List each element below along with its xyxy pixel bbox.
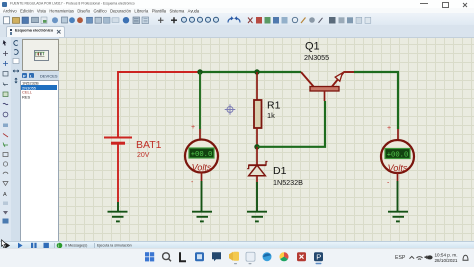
P L DEVICES header [22,73,27,78]
voltmeter VM1 [185,124,218,186]
wire: top rail green from node A to collector [200,71,301,73]
svg-text:1k: 1k [267,111,275,120]
node A junction dot [197,69,202,74]
wire: right voltmeter bottom pin + ground wire [397,173,399,182]
wire: D1 to ground [256,182,258,212]
resistor R1 [254,72,281,147]
node C junction dot (R1/D1/base) [254,144,259,149]
svg-text:Volts: Volts [192,163,212,173]
preview pane [22,39,59,71]
voltmeter VM2 [381,125,414,187]
svg-text:2N3055: 2N3055 [304,53,329,62]
wire: battery negative to ground (red then green) [117,143,119,202]
svg-text:-: - [387,180,390,187]
svg-text:Q1: Q1 [305,41,320,53]
svg-text:+: + [191,124,195,131]
svg-text:-: - [191,179,194,186]
svg-text:20V: 20V [137,152,150,159]
svg-text:+00.0: +00.0 [387,152,409,160]
svg-text:R1: R1 [267,100,281,112]
zener diode D1 [247,147,303,187]
wire: right voltmeter top pin (red) [397,129,399,140]
svg-text:D1: D1 [273,165,287,177]
wire: left voltmeter bottom pin + ground wire [201,172,203,181]
transistor Q1 [301,41,354,102]
rotate mini toolbar [11,38,21,108]
wire: left voltmeter top pin (red) [199,129,201,140]
wire: left voltmeter drop [199,72,201,129]
svg-text:1N5232B: 1N5232B [273,178,303,187]
wire: base link [257,101,325,147]
svg-text:+00.0: +00.0 [191,151,213,159]
node B junction dot (R1 top) [254,69,259,74]
wire: battery positive riser (highlighted red) [118,72,200,138]
origin marker [225,104,236,115]
battery BAT1 [104,138,162,160]
svg-text:BAT1: BAT1 [136,139,162,151]
ground (left voltmeter) [192,212,212,222]
ground (right voltmeter) [388,212,408,222]
devices list [20,80,59,242]
mouse cursor [0,239,9,249]
ground (battery) [108,212,128,222]
wire: emitter to right voltmeter [354,72,398,129]
ground (D1) [247,212,267,222]
svg-text:Volts: Volts [388,163,408,173]
svg-text:+: + [387,125,391,132]
